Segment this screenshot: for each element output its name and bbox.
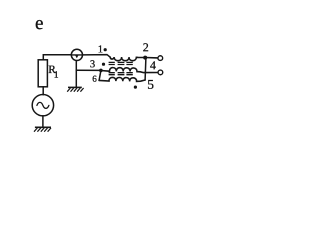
svg-text:2: 2 — [143, 40, 149, 54]
svg-text:6: 6 — [92, 74, 97, 84]
svg-text:1: 1 — [54, 70, 59, 81]
svg-text:4: 4 — [150, 58, 156, 72]
svg-text:3: 3 — [90, 59, 95, 70]
svg-text:5: 5 — [147, 77, 154, 92]
svg-text:e: e — [35, 13, 44, 34]
svg-text:1: 1 — [98, 44, 103, 55]
